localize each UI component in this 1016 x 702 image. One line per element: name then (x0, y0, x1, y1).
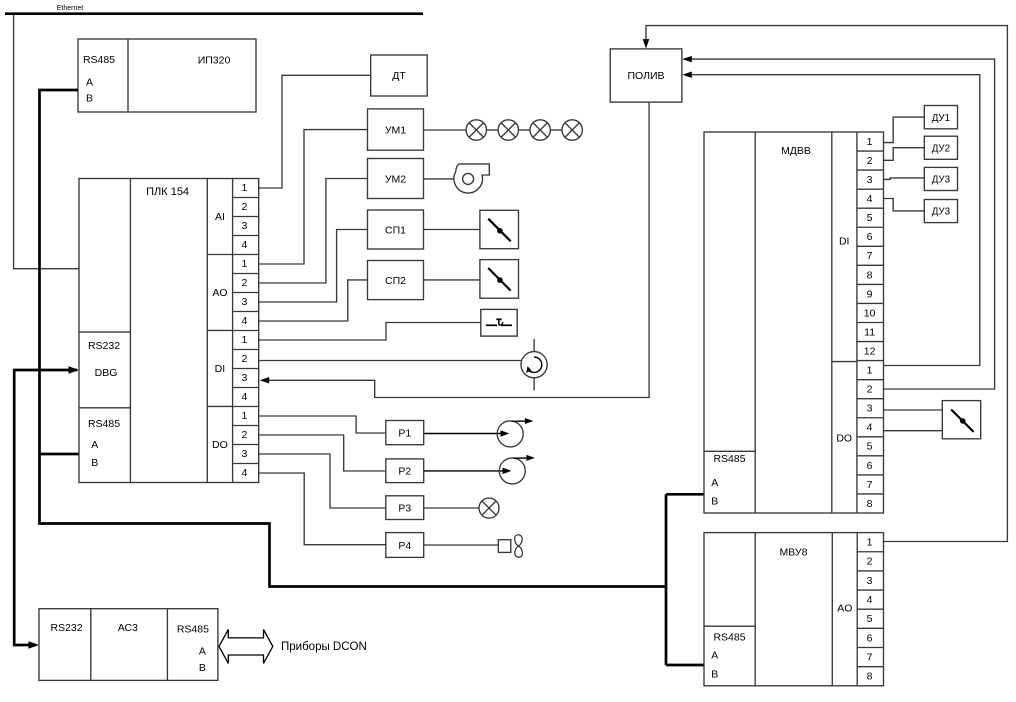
wire СП1 to valve (424, 229, 480, 231)
wire AO4 to СП2 (259, 280, 368, 321)
svg-text:8: 8 (867, 269, 873, 281)
lamp HL1 (466, 120, 486, 140)
svg-text:RS232: RS232 (50, 622, 82, 634)
svg-text:4: 4 (241, 239, 247, 251)
module МДВВ body (704, 132, 884, 513)
svg-text:A: A (711, 477, 718, 489)
svg-text:УМ2: УМ2 (385, 174, 406, 186)
svg-text:3: 3 (241, 372, 247, 384)
svg-text:3: 3 (241, 296, 247, 308)
blower fan symbol (454, 164, 489, 193)
amplifier УМ1 (368, 109, 424, 150)
svg-text:DI: DI (839, 236, 850, 248)
lamp at Р3 (424, 507, 479, 509)
svg-text:DBG: DBG (95, 367, 118, 379)
relay Р3 (386, 496, 424, 520)
svg-text:A: A (86, 77, 93, 89)
svg-text:Р3: Р3 (398, 503, 411, 515)
svg-text:RS485: RS485 (88, 418, 120, 430)
sensor ДТ (371, 55, 428, 96)
svg-text:7: 7 (867, 651, 873, 663)
wire МДВВ DI4 to ДУ3b (884, 199, 925, 211)
svg-text:1: 1 (241, 334, 247, 346)
svg-text:3: 3 (867, 403, 873, 415)
wire Ethernet trunk (5, 12, 423, 15)
port RS232 DBG of ПЛК (79, 331, 130, 333)
svg-text:2: 2 (867, 384, 873, 396)
svg-text:B: B (91, 457, 98, 469)
wire МДВВ DO1 to ПОЛИВ (685, 75, 980, 366)
svg-text:8: 8 (867, 671, 873, 683)
svg-text:СП2: СП2 (385, 275, 406, 287)
wire RS485 bus to МВУ8 (666, 664, 704, 667)
sensor ДУ1 (924, 106, 957, 129)
svg-text:2: 2 (241, 201, 247, 213)
wire DI1 to thermo switch (259, 323, 481, 341)
sensor ДУ3 second (924, 200, 957, 223)
port RS485 of МВУ8 (704, 625, 755, 627)
svg-text:3: 3 (867, 575, 873, 587)
relay Р4 (386, 533, 424, 558)
svg-text:RS485: RS485 (713, 453, 745, 465)
wire AO1 to УМ1 (259, 130, 368, 264)
svg-text:B: B (86, 93, 93, 105)
svg-text:5: 5 (867, 613, 873, 625)
controller ПЛК 154 body (79, 179, 259, 483)
group label AO (207, 329, 232, 331)
panel ИП320 (78, 39, 256, 112)
wire RS232 DBG to АС3 (14, 370, 77, 645)
svg-text:Р4: Р4 (398, 540, 411, 552)
actuator СП2 (368, 261, 424, 300)
wire МДВВ DI1 to ДУ1 (884, 117, 925, 143)
svg-text:2: 2 (241, 353, 247, 365)
svg-text:СП1: СП1 (385, 225, 406, 237)
svg-text:6: 6 (867, 460, 873, 472)
lamp HL2 (498, 120, 518, 140)
svg-text:2: 2 (241, 277, 247, 289)
svg-text:AI: AI (215, 211, 225, 223)
svg-text:10: 10 (864, 307, 876, 319)
wire AO3 to СП1 (259, 230, 368, 303)
svg-text:12: 12 (864, 345, 876, 357)
double arrow to DCON devices (219, 630, 273, 664)
svg-text:ДТ: ДТ (392, 70, 406, 82)
svg-text:AO: AO (837, 603, 852, 615)
svg-text:6: 6 (867, 231, 873, 243)
svg-text:1: 1 (867, 365, 873, 377)
valve 2 (480, 260, 519, 299)
svg-text:RS485: RS485 (713, 631, 745, 643)
wire DO2 to Р2 (259, 435, 386, 471)
svg-text:B: B (711, 669, 718, 681)
svg-text:ДУ2: ДУ2 (932, 143, 950, 154)
svg-text:4: 4 (241, 467, 247, 479)
svg-text:ДУ3: ДУ3 (932, 207, 951, 218)
wire МДВВ DO4 to valve 3 (884, 430, 943, 432)
svg-text:Р1: Р1 (398, 428, 411, 440)
svg-text:5: 5 (867, 441, 873, 453)
wire RS485 bus right riser (665, 494, 668, 665)
group label AI (207, 254, 232, 256)
svg-text:5: 5 (867, 212, 873, 224)
svg-text:ПОЛИВ: ПОЛИВ (627, 70, 664, 82)
group label DI of МДВВ (832, 361, 857, 363)
svg-text:B: B (199, 662, 206, 674)
valve 1 (480, 210, 519, 248)
svg-text:1: 1 (867, 136, 873, 148)
svg-text:A: A (199, 646, 206, 658)
svg-text:4: 4 (241, 315, 247, 327)
valve 3 (942, 401, 980, 439)
wire DO3 to Р3 (259, 454, 386, 508)
svg-text:4: 4 (241, 391, 247, 403)
svg-text:7: 7 (867, 479, 873, 491)
group label DI (207, 405, 232, 407)
relay Р2 (386, 459, 424, 483)
thermo switch box (481, 309, 517, 336)
svg-text:2: 2 (241, 429, 247, 441)
svg-text:3: 3 (241, 448, 247, 460)
wire СП2 to valve (424, 279, 480, 281)
wire DO1 to Р1 (259, 416, 386, 433)
svg-text:Р2: Р2 (398, 466, 411, 478)
svg-text:1: 1 (241, 258, 247, 270)
svg-text:ИП320: ИП320 (198, 55, 231, 67)
svg-text:4: 4 (867, 594, 873, 606)
wire МДВВ DO2 to ПОЛИВ (685, 59, 995, 389)
wire RS485 bus to МДВВ (666, 493, 704, 496)
svg-text:AO: AO (212, 287, 227, 299)
svg-text:3: 3 (241, 220, 247, 232)
svg-text:A: A (91, 439, 98, 451)
svg-text:1: 1 (241, 182, 247, 194)
lamp HL3 (530, 120, 550, 140)
sensor ДУ2 (924, 136, 957, 159)
wire ПОЛИВ to DI3 (262, 102, 649, 397)
wire DI2 to rotation sensor (259, 360, 522, 362)
svg-text:B: B (711, 496, 718, 508)
svg-text:4: 4 (867, 422, 873, 434)
wire МВУ8 AO1 to ПОЛИВ top (646, 26, 1007, 542)
svg-text:DO: DO (836, 433, 852, 445)
svg-text:Приборы DCON: Приборы DCON (281, 641, 367, 653)
svg-text:1: 1 (241, 410, 247, 422)
small fan at Р4 (424, 544, 499, 546)
svg-text:9: 9 (867, 288, 873, 300)
wire RS485 bus ИП320 to ПЛК (40, 90, 667, 587)
svg-text:АС3: АС3 (118, 622, 138, 634)
wire МДВВ DI2 to ДУ2 (884, 148, 925, 161)
wire DO4 to Р4 (259, 473, 386, 545)
wire УМ1 to lamps (424, 129, 467, 131)
svg-text:DO: DO (212, 439, 228, 451)
wire Ethernet drop to PLC (14, 15, 79, 269)
rotation sensor (533, 339, 535, 352)
svg-text:3: 3 (867, 174, 873, 186)
svg-text:6: 6 (867, 632, 873, 644)
svg-text:ДУ3: ДУ3 (932, 175, 951, 186)
unit ПОЛИВ (610, 49, 682, 102)
svg-text:1: 1 (867, 537, 873, 549)
port RS485 of МДВВ (704, 450, 755, 452)
svg-text:RS485: RS485 (83, 54, 115, 66)
svg-text:4: 4 (867, 193, 873, 205)
converter АС3 body (39, 609, 218, 681)
svg-text:Ethernet: Ethernet (57, 5, 84, 12)
wire МДВВ DI3 to ДУ3 (884, 178, 925, 180)
svg-text:7: 7 (867, 250, 873, 262)
wire RS485 bus branch to ПЛК RS485 (40, 453, 80, 456)
svg-text:RS485: RS485 (177, 623, 209, 635)
wire УМ2 to fan (424, 178, 454, 180)
sensor ДУ3 (924, 167, 957, 190)
svg-text:2: 2 (867, 556, 873, 568)
port RS485 of ПЛК (79, 407, 130, 409)
relay Р1 (386, 421, 424, 445)
svg-text:МВУ8: МВУ8 (780, 546, 808, 558)
module МВУ8 body (704, 533, 884, 686)
wire AO2 to УМ2 (259, 179, 368, 284)
svg-text:УМ1: УМ1 (385, 124, 406, 136)
wire AI1 to ДТ (259, 75, 371, 188)
wire МДВВ DO3 to valve 3 (884, 409, 943, 411)
amplifier УМ2 (368, 159, 424, 199)
svg-text:A: A (711, 650, 718, 662)
svg-text:2: 2 (867, 155, 873, 167)
svg-text:DI: DI (215, 363, 226, 375)
lamp HL4 (562, 120, 582, 140)
svg-text:ДУ1: ДУ1 (932, 113, 950, 124)
svg-text:ПЛК 154: ПЛК 154 (146, 186, 189, 198)
svg-text:МДВВ: МДВВ (781, 145, 811, 157)
svg-text:RS232: RS232 (88, 340, 120, 352)
pump 1 (424, 433, 505, 435)
actuator СП1 (368, 210, 424, 249)
pump 2 (424, 470, 507, 472)
svg-text:8: 8 (867, 498, 873, 510)
svg-text:11: 11 (864, 326, 875, 338)
